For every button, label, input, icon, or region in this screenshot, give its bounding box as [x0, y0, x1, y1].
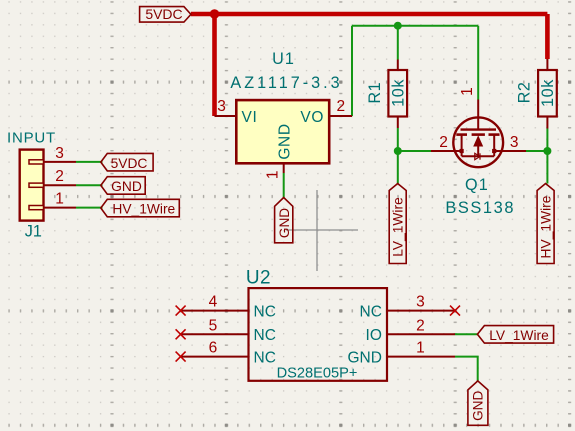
source junction square [460, 149, 464, 153]
global label HV_1Wire vertical [537, 184, 554, 264]
wire 5VDC thick vertical to R2 [545, 14, 550, 59]
pin 2 line [387, 333, 455, 335]
svg-text:NC: NC [254, 303, 276, 320]
wire 5VDC thick vertical to U1 VI [212, 14, 217, 116]
no-connect pin 3 [450, 306, 460, 316]
resistor R1 [366, 60, 407, 129]
pin 2 source line [431, 150, 462, 152]
global label HV_1Wire at J1 [101, 199, 180, 217]
wire U2 GND to power GND [455, 357, 478, 382]
pin 2 stub [29, 183, 44, 187]
pin 1 line [546, 59, 548, 70]
wire J1 pin1 to label HV_1Wire [76, 207, 103, 209]
wire node HV down to label [546, 151, 548, 184]
bulk bottom line [462, 155, 495, 157]
bulk arrow [473, 135, 483, 146]
junction node HV [543, 147, 551, 155]
junction 3V3 R1 top [394, 22, 402, 30]
pin 1 line [44, 207, 77, 209]
pin 3 drain line [494, 150, 526, 152]
svg-text:J1: J1 [25, 222, 42, 240]
wire J1 pin2 to label GND [76, 184, 103, 186]
transistor Q1 [431, 87, 526, 217]
body diode glyph [475, 153, 480, 159]
svg-text:GND: GND [277, 123, 294, 159]
pin 1 GND line [283, 163, 285, 173]
svg-text:LV_1Wire: LV_1Wire [489, 328, 549, 343]
pin 2 VO line [329, 115, 352, 117]
crosshair origin marker [286, 190, 358, 271]
connector J1 [7, 129, 76, 240]
wire Q1 drain to node HV [526, 150, 547, 152]
svg-text:U1: U1 [272, 50, 295, 68]
drain junction square [492, 149, 496, 153]
pin 1 line [387, 356, 455, 358]
no-connect pin 6 [176, 352, 186, 362]
pin 1 stub [29, 206, 44, 210]
pin 1 gate line [477, 100, 479, 130]
svg-text:AZ1117-3.3: AZ1117-3.3 [230, 74, 342, 92]
svg-text:LV_1Wire: LV_1Wire [391, 197, 406, 257]
pin 3 VI line [215, 115, 237, 117]
junction 5VDC [210, 9, 220, 19]
svg-text:NC: NC [254, 349, 276, 366]
svg-text:10k: 10k [389, 79, 407, 107]
global label LV_1Wire at U2 [477, 326, 553, 344]
wire R1 bottom to node LV [397, 128, 399, 151]
IC U2 [176, 267, 460, 381]
channel segment right [489, 133, 500, 136]
svg-text:3: 3 [510, 134, 519, 151]
junction node LV [394, 147, 402, 155]
svg-text:NC: NC [254, 327, 276, 344]
svg-text:4: 4 [209, 294, 218, 311]
svg-text:5VDC: 5VDC [145, 6, 182, 22]
svg-text:5: 5 [209, 317, 218, 334]
global label LV_1Wire vertical [389, 184, 406, 264]
svg-text:R1: R1 [366, 82, 384, 104]
svg-text:NC: NC [360, 303, 382, 320]
svg-text:GND: GND [111, 179, 142, 194]
wire 3V3 down to R1 [397, 26, 399, 60]
svg-text:Q1: Q1 [465, 176, 489, 194]
svg-text:DS28E05P+: DS28E05P+ [277, 366, 358, 382]
svg-text:HV_1Wire: HV_1Wire [539, 195, 554, 258]
pin 1 line [397, 60, 399, 71]
wire node LV down to label [397, 151, 399, 184]
svg-text:2: 2 [55, 168, 64, 185]
svg-text:1: 1 [459, 87, 476, 96]
source vertical [461, 135, 463, 157]
svg-text:2: 2 [416, 317, 425, 334]
bulk arrow stem [477, 147, 479, 157]
svg-text:6: 6 [209, 340, 218, 357]
pin 3 stub [29, 160, 44, 164]
regulator U1 [215, 50, 353, 179]
svg-text:3: 3 [55, 145, 64, 162]
wire node LV to Q1 source [398, 150, 431, 152]
pin 3 line [44, 161, 77, 163]
svg-text:5VDC: 5VDC [111, 156, 148, 171]
svg-text:R2: R2 [516, 81, 534, 103]
power label GND at U2 [468, 381, 488, 425]
wire 3V3 top horizontal [352, 25, 478, 27]
pin 6 line [181, 356, 249, 358]
svg-text:VO: VO [300, 109, 324, 126]
svg-text:INPUT: INPUT [7, 129, 56, 146]
power label 5VDC top [140, 6, 191, 22]
svg-text:GND: GND [471, 391, 486, 421]
svg-text:BSS138: BSS138 [445, 199, 515, 217]
svg-text:1: 1 [264, 170, 281, 179]
drain vertical [493, 135, 495, 157]
wire 5VDC thick top horizontal [191, 12, 548, 17]
pin 3 line [387, 310, 455, 312]
pin 2 line [397, 117, 399, 129]
svg-text:IO: IO [366, 327, 382, 344]
svg-text:3: 3 [217, 98, 226, 115]
pin 2 line [546, 117, 548, 129]
svg-text:GND: GND [277, 208, 292, 238]
wire U2 IO to label LV_1Wire [455, 333, 477, 335]
no-connect pin 4 [176, 306, 186, 316]
no-connect pin 5 [176, 329, 186, 339]
svg-text:VI: VI [242, 109, 258, 126]
svg-text:1: 1 [416, 340, 425, 357]
wire U1 GND down [283, 173, 285, 198]
pin 4 line [181, 310, 249, 312]
svg-text:HV_1Wire: HV_1Wire [112, 202, 175, 217]
svg-text:GND: GND [347, 349, 381, 366]
global label GND at J1 [101, 177, 145, 195]
pin 5 line [181, 333, 249, 335]
svg-text:3: 3 [416, 294, 425, 311]
wire 3V3 down to Q1 gate [477, 26, 479, 100]
resistor R2 [516, 59, 558, 129]
svg-text:2: 2 [439, 134, 448, 151]
pin 2 line [44, 184, 77, 186]
svg-text:2: 2 [336, 98, 345, 115]
svg-text:10k: 10k [539, 79, 557, 107]
power label GND below U1 [275, 198, 293, 243]
gate bar [461, 128, 497, 130]
channel segment left [456, 133, 467, 136]
channel segment middle [472, 133, 485, 136]
wire 3V3 from VO up [351, 26, 353, 116]
wire R2 bottom to node HV [546, 129, 548, 152]
svg-text:U2: U2 [246, 267, 271, 288]
svg-text:1: 1 [55, 191, 64, 208]
wire J1 pin3 to label 5VDC [76, 161, 103, 163]
global label 5VDC at J1 [101, 153, 153, 171]
